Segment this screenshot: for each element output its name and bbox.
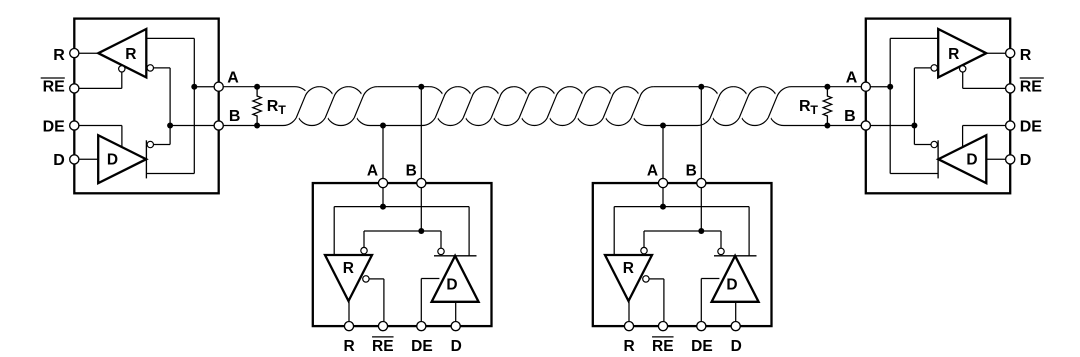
U4 wire driver direct output	[890, 173, 938, 175]
twisted-pair twist A1 bottom arc	[297, 115, 326, 126]
U4 wire RE pin horizontal	[963, 87, 1011, 89]
twisted-pair twist C1 bottom arc	[711, 115, 740, 126]
twisted-pair twist A1 over strand	[296, 87, 319, 118]
U3 driver output bar	[714, 255, 757, 257]
svg-text:R: R	[623, 260, 634, 277]
svg-text:R: R	[948, 46, 959, 63]
junction stub U3 A on bus	[660, 123, 666, 129]
pin DE of U2	[417, 322, 426, 331]
U4 wire D pin to driver input	[986, 158, 1010, 160]
U4 wire receiver inverting to node B	[914, 67, 931, 69]
U1 wire driver inverting output	[154, 144, 171, 146]
U4 wire R pin to receiver apex	[986, 52, 1010, 54]
svg-text:R: R	[1020, 47, 1032, 64]
U1 wire DE vertical to driver enable	[121, 126, 123, 148]
svg-text:D: D	[726, 276, 737, 293]
pin B of U1	[214, 121, 223, 130]
twisted-pair open section at stub U3 bottom arc	[632, 115, 711, 126]
twisted-pair twist B3 bottom arc	[492, 115, 520, 126]
twisted-pair twist B4 over strand	[519, 87, 542, 118]
U3 A rail left drop to receiver	[613, 207, 615, 255]
driver D of U3	[712, 256, 759, 302]
U2 driver inverting output bubble	[438, 248, 444, 254]
U2 B rail	[364, 230, 441, 232]
U4 wire vertical B-side	[913, 68, 915, 145]
svg-text:B: B	[844, 108, 856, 125]
svg-text:D: D	[107, 151, 118, 168]
twisted-pair twist B6 top arc tail	[598, 87, 613, 101]
svg-text:R: R	[343, 260, 354, 277]
stub transceiver U2 box	[313, 183, 492, 326]
twisted-pair twist B5 top arc tail	[570, 87, 585, 101]
junction stub U2 B on bus	[418, 84, 424, 90]
junction stub U2 A on bus	[380, 123, 386, 129]
receiver R of U3	[605, 255, 652, 301]
U1 receiver enable bubble	[119, 66, 125, 72]
U1 wire DE pin horizontal	[74, 125, 122, 127]
U3 A rail junction	[660, 204, 666, 210]
pin D of U2	[451, 322, 460, 331]
U2 receiver inverting input bubble	[361, 247, 367, 253]
U3 A rail	[614, 206, 749, 208]
twisted-pair twist B3 over strand	[491, 87, 514, 118]
twisted-pair twist B1 over strand	[435, 87, 458, 118]
twisted-pair twist B4 top arc tail	[542, 87, 557, 101]
wire bus A left segment	[223, 87, 308, 95]
svg-text:D: D	[53, 152, 65, 169]
svg-text:A: A	[647, 163, 658, 180]
svg-text:RE: RE	[372, 338, 394, 355]
U2 B rail junction	[418, 228, 424, 234]
wire stub U2 A drop	[382, 126, 384, 184]
U2 wire D pin to driver input	[455, 302, 457, 322]
svg-text:A: A	[367, 163, 378, 180]
U3 B rail	[644, 230, 721, 232]
U2 receiver enable bubble	[363, 276, 369, 282]
U1 receiver inverting input bubble	[147, 65, 153, 71]
U4 receiver inverting input bubble	[931, 65, 937, 71]
node B junction of U1	[167, 123, 173, 129]
stub transceiver U3 box	[593, 183, 772, 326]
wire bus B right segment	[769, 115, 861, 126]
U4 wire node A to pin A	[866, 86, 890, 88]
U3 wire RE vertical to pin	[663, 279, 665, 322]
U3 wire DE horizontal to driver	[701, 278, 719, 280]
U1 wire node A to pin A	[194, 86, 218, 88]
twisted-pair twist B2 over strand	[463, 87, 486, 118]
svg-text:B: B	[229, 108, 241, 125]
svg-text:DE: DE	[691, 338, 713, 355]
pin B of U3	[697, 178, 706, 187]
U1 wire RE pin horizontal	[74, 87, 122, 89]
twisted-pair twist B4 bottom arc	[520, 115, 548, 126]
svg-text:D: D	[446, 276, 457, 293]
U4 receiver enable bubble	[960, 66, 966, 72]
twisted-pair twist C1 top arc tail	[733, 87, 748, 101]
twisted-pair twist B5 over strand	[547, 87, 570, 118]
node B junction of U4	[911, 123, 917, 129]
svg-text:A: A	[846, 70, 858, 87]
pin RE of U3	[658, 322, 667, 331]
U3 B rail drop to receiver bubble	[643, 231, 645, 247]
twisted-pair open section at stub U2 top arc tail	[429, 87, 444, 101]
U2 B rail drop to driver bubble	[440, 231, 442, 248]
twisted-pair open section at stub U2 top straight	[377, 86, 429, 88]
U1 driver output bar	[145, 140, 147, 178]
U1 wire receiver input to node A	[146, 37, 194, 39]
twisted-pair twist B1 top arc tail	[458, 87, 473, 101]
U3 driver inverting output bubble	[718, 248, 724, 254]
U1 wire D pin to driver input	[74, 158, 98, 160]
svg-text:R: R	[623, 338, 634, 355]
U2 wire RE bubble horizontal	[369, 278, 384, 280]
twisted-pair twist B6 bottom arc	[576, 115, 604, 126]
U3 wire RE bubble horizontal	[649, 278, 664, 280]
transceiver U4 box	[866, 19, 1010, 194]
resistor RT left	[253, 87, 261, 126]
twisted-pair twist A1 top arc tail	[319, 87, 334, 101]
twisted-pair open section at stub U3 over strand	[631, 87, 654, 118]
svg-text:R: R	[343, 338, 354, 355]
junction RT right bottom	[824, 123, 830, 129]
driver D of U4	[938, 135, 986, 183]
twisted-pair twist B7 top arc tail	[626, 87, 641, 101]
pin RE of U4	[1006, 84, 1015, 93]
U4 wire receiver input to node A	[890, 37, 938, 39]
U4 driver output bar	[937, 140, 939, 178]
U2 wire DE vertical	[420, 279, 422, 322]
overline of RE label U3	[652, 336, 674, 338]
pin DE of U1	[70, 121, 79, 130]
U3 wire B pin down to rail	[700, 183, 702, 231]
svg-text:T: T	[810, 103, 818, 117]
U2 A rail left drop to receiver	[333, 207, 335, 255]
pin R of U1	[70, 49, 79, 58]
U1 wire vertical B-side	[169, 68, 171, 145]
U3 wire D pin to driver input	[735, 302, 737, 322]
receiver R of U2	[325, 255, 372, 301]
twisted-pair twist B2 bottom arc	[464, 115, 492, 126]
twisted-pair twist B6 over strand	[575, 87, 598, 118]
overline of RE label U2	[372, 336, 394, 338]
pin D of U3	[731, 322, 740, 331]
pin B of U2	[417, 178, 426, 187]
U3 receiver inverting input bubble	[641, 247, 647, 253]
pin D of U1	[70, 155, 79, 164]
receiver R of U1	[98, 29, 146, 77]
twisted-pair twist B1 bottom arc	[436, 115, 464, 126]
junction RT left bottom	[254, 123, 260, 129]
pin D of U4	[1006, 155, 1015, 164]
pin A of U2	[378, 178, 387, 187]
node A junction of U1	[191, 84, 197, 90]
wire RT left top lead context junction	[254, 84, 260, 90]
node A junction of U4	[887, 84, 893, 90]
wire stub U3 B drop	[700, 87, 702, 183]
U3 wire A pin down to rail	[662, 183, 664, 207]
twisted-pair twist B3 top arc tail	[514, 87, 529, 101]
U1 wire vertical A-side	[193, 38, 195, 173]
twisted-pair twist A2 over strand	[325, 87, 348, 118]
svg-text:R: R	[53, 47, 65, 64]
U2 wire receiver output to R pin	[348, 301, 350, 322]
twisted-pair open section at stub U2 over strand	[354, 87, 377, 118]
U4 wire DE pin horizontal	[963, 125, 1011, 127]
twisted-pair twist C2 top arc tail	[762, 87, 777, 101]
pin A of U1	[214, 82, 223, 91]
twisted-pair open section at stub U3 top arc tail	[705, 87, 720, 101]
driver D of U1	[98, 135, 146, 183]
U2 wire DE horizontal to driver	[421, 278, 439, 280]
U4 wire RE vertical to enable bubble	[962, 72, 964, 88]
U1 driver inverting output bubble	[147, 141, 153, 147]
svg-text:D: D	[1020, 152, 1032, 169]
U1 wire node B to pin B	[170, 125, 219, 127]
svg-text:R: R	[267, 98, 279, 115]
twisted-pair open section at stub U2 bottom arc	[355, 115, 436, 126]
svg-text:D: D	[966, 151, 977, 168]
twisted-pair twist A2 top arc tail	[348, 87, 363, 101]
U4 wire node B to pin B	[866, 125, 915, 127]
transceiver U1 box	[74, 19, 218, 194]
svg-text:R: R	[125, 46, 136, 63]
wire bus B left segment	[223, 115, 297, 126]
pin B of U4	[861, 121, 870, 130]
U2 A rail	[334, 206, 469, 208]
U1 wire receiver inverting to node B	[154, 67, 171, 69]
svg-text:DE: DE	[411, 338, 433, 355]
U2 A rail junction	[380, 204, 386, 210]
twisted-pair twist B5 bottom arc	[548, 115, 576, 126]
pin R of U2	[344, 322, 353, 331]
U4 driver inverting output bubble	[931, 141, 937, 147]
twisted-pair twist A2 bottom arc	[326, 115, 355, 126]
U3 wire DE vertical	[700, 279, 702, 322]
svg-text:DE: DE	[1020, 118, 1043, 135]
U2 B rail drop to receiver bubble	[363, 231, 365, 247]
U3 B rail drop to driver bubble	[720, 231, 722, 248]
twisted-pair twist C2 bottom arc	[740, 115, 769, 126]
pin A of U4	[861, 82, 870, 91]
svg-text:DE: DE	[43, 118, 66, 135]
junction stub U3 B on bus	[698, 84, 704, 90]
svg-text:T: T	[278, 103, 286, 117]
twisted-pair open section at stub U3 top straight	[654, 86, 705, 88]
U3 wire receiver output to R pin	[628, 301, 630, 322]
svg-text:B: B	[406, 163, 417, 180]
U1 wire RE vertical to enable bubble	[121, 72, 123, 88]
svg-text:R: R	[799, 98, 811, 115]
svg-text:RE: RE	[1020, 78, 1043, 95]
U3 receiver enable bubble	[643, 276, 649, 282]
svg-text:A: A	[227, 70, 239, 87]
U2 wire B pin down to rail	[420, 183, 422, 231]
twisted-pair twist C1 over strand	[710, 87, 733, 118]
overline of RE label U1	[41, 77, 65, 79]
svg-text:RE: RE	[43, 78, 66, 95]
resistor RT right	[823, 87, 831, 126]
U3 B rail junction	[698, 228, 704, 234]
pin DE of U3	[697, 322, 706, 331]
twisted-pair twist B7 bottom arc	[604, 115, 632, 126]
U2 wire A pin down to rail	[382, 183, 384, 207]
wire bus A right segment	[768, 87, 862, 118]
pin DE of U4	[1006, 121, 1015, 130]
twisted-pair twist B7 over strand	[603, 87, 626, 118]
junction RT right top	[824, 84, 830, 90]
svg-text:D: D	[731, 338, 742, 355]
svg-text:RE: RE	[652, 338, 674, 355]
wire stub U3 A drop	[662, 126, 664, 184]
twisted-pair twist B2 top arc tail	[486, 87, 501, 101]
U2 A rail right drop to driver bar	[468, 207, 470, 256]
driver D of U2	[432, 256, 479, 302]
U4 wire DE vertical to driver enable	[962, 126, 964, 148]
overline of RE label U4	[1020, 77, 1044, 79]
pin RE of U2	[378, 322, 387, 331]
U4 wire driver inverting output	[914, 144, 931, 146]
U2 driver output bar	[434, 255, 477, 257]
twisted-pair twist C2 over strand	[739, 87, 762, 118]
svg-text:B: B	[686, 163, 697, 180]
pin R of U3	[624, 322, 633, 331]
svg-text:D: D	[451, 338, 462, 355]
U4 wire vertical A-side	[889, 38, 891, 173]
U1 wire driver direct output	[146, 173, 194, 175]
pin A of U3	[658, 178, 667, 187]
pin R of U4	[1006, 49, 1015, 58]
U1 wire R pin to receiver apex	[74, 52, 98, 54]
receiver R of U4	[938, 29, 986, 77]
pin RE of U1	[70, 84, 79, 93]
U2 wire RE vertical to pin	[383, 279, 385, 322]
wire stub U2 B drop	[420, 87, 422, 183]
U3 A rail right drop to driver bar	[748, 207, 750, 256]
